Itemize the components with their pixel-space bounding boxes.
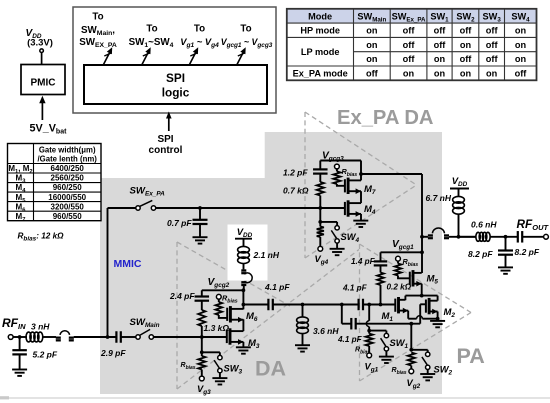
capacitor 8.2 pF series xyxy=(517,231,519,243)
block PMIC xyxy=(21,65,65,95)
svg-text:on: on xyxy=(515,54,527,64)
wire M3 source down xyxy=(242,342,244,347)
svg-text:To: To xyxy=(146,24,157,35)
svg-text:3 nH: 3 nH xyxy=(31,322,50,332)
svg-text:0.6 nH: 0.6 nH xyxy=(471,220,497,230)
terminal Vg4 xyxy=(318,246,323,251)
terminal Vg3 xyxy=(199,376,204,381)
svg-text:SPI: SPI xyxy=(166,71,185,85)
wire Vgcg2 rail xyxy=(202,289,244,291)
svg-text:0.2 kΩ: 0.2 kΩ xyxy=(387,283,412,292)
svg-text:on: on xyxy=(515,26,527,36)
wire lower cap to M2 gate xyxy=(356,323,421,325)
Ex_PA DA amplifier dashed triangle xyxy=(304,112,306,258)
node Vg2 bias junction xyxy=(409,348,413,352)
transistor M1 xyxy=(394,299,396,312)
capacitor 5.2 pF shunt xyxy=(19,337,21,350)
svg-text:off: off xyxy=(434,26,447,36)
node M2 source ground junction xyxy=(436,317,440,321)
resistor Rbias M6 gate xyxy=(216,294,221,299)
resistor Rbias Vg3 xyxy=(198,356,205,370)
node Vg1 bias junction xyxy=(367,329,371,333)
terminal RF_IN xyxy=(8,335,13,340)
svg-text:2560/250: 2560/250 xyxy=(51,174,85,183)
svg-text:logic: logic xyxy=(162,86,190,100)
svg-text:8.2 pF: 8.2 pF xyxy=(515,247,540,257)
wire M7 drain to output xyxy=(360,161,362,181)
wire upper cap to M1 gate xyxy=(363,304,395,306)
switch SW_Main xyxy=(136,335,140,339)
node choke junction xyxy=(457,235,461,239)
svg-text:off: off xyxy=(434,40,447,50)
inductor 6.7 nH choke xyxy=(453,196,465,203)
transistor M3 xyxy=(226,330,228,343)
svg-text:Mode: Mode xyxy=(308,11,332,21)
svg-text:on: on xyxy=(366,40,378,50)
wire M2 source down xyxy=(437,312,439,319)
svg-text:2.1 nH: 2.1 nH xyxy=(253,250,280,260)
capacitor 4.1 pF lower xyxy=(341,305,343,324)
node Vgcg1 rail junction xyxy=(420,250,424,254)
wire L3nH to bondpad xyxy=(42,336,56,338)
switch SW_Ex_PA xyxy=(136,206,140,210)
switch SW1 xyxy=(369,330,386,332)
capacitor 0.7 pF shunt xyxy=(199,208,201,220)
block SPI logic xyxy=(84,65,267,104)
svg-text:3200/550: 3200/550 xyxy=(51,202,85,211)
svg-text:To: To xyxy=(92,12,103,23)
switch SW4 xyxy=(320,221,337,223)
svg-text:on: on xyxy=(434,54,446,64)
svg-text:on: on xyxy=(434,68,446,78)
svg-text:SW1​~SW4​: SW1​~SW4​ xyxy=(129,37,174,49)
capacitor 4.1 pF DA output xyxy=(267,299,269,311)
wire M1 drain up xyxy=(404,296,406,301)
svg-text:8.2 pF: 8.2 pF xyxy=(468,249,493,259)
wire branch up to SW_Ex_PA row xyxy=(107,208,109,337)
white cutout box around 2.1 nH choke xyxy=(228,225,268,281)
node Vg4 bias junction xyxy=(318,220,322,224)
capacitor 4.1 pF upper xyxy=(358,299,360,311)
resistor Rbias M5 gate xyxy=(396,256,401,261)
wire M6 source to M3 drain xyxy=(242,319,244,331)
transistor M5 xyxy=(409,272,411,285)
svg-text:2.4 pF: 2.4 pF xyxy=(169,291,195,301)
ground SW1 xyxy=(379,356,394,358)
ground 8.2pF xyxy=(498,266,513,268)
wire Vgcg1 rail xyxy=(381,251,423,253)
svg-text:off: off xyxy=(403,40,416,50)
node Ex_PA feedback tap xyxy=(318,206,322,210)
svg-text:Ex_PA mode: Ex_PA mode xyxy=(293,68,348,78)
ground SW2 xyxy=(420,373,435,375)
wire Ex_PA output to bond xyxy=(361,173,422,175)
wire to RF_OUT xyxy=(522,236,543,238)
svg-text:1.2 pF: 1.2 pF xyxy=(283,168,308,178)
svg-text:off: off xyxy=(460,54,473,64)
svg-text:off: off xyxy=(486,54,499,64)
inductor 2.1 nH xyxy=(238,246,250,253)
terminal RF_OUT xyxy=(544,234,549,239)
svg-text:on: on xyxy=(366,26,378,36)
ground 5.2pF xyxy=(12,369,27,371)
wire Vg3 branch xyxy=(201,337,203,352)
wire M1 source to ground with hop xyxy=(407,311,409,319)
node input shunt junction xyxy=(18,335,22,339)
node 3.6nH tap xyxy=(301,303,305,307)
block SPI outer box xyxy=(73,7,276,113)
bondwire input xyxy=(56,337,61,342)
svg-text:To: To xyxy=(194,24,205,35)
svg-text:on: on xyxy=(366,54,378,64)
svg-text:off: off xyxy=(486,26,499,36)
node DA out tap xyxy=(242,303,246,307)
svg-text:1.4 pF: 1.4 pF xyxy=(351,257,376,266)
svg-text:5.2 pF: 5.2 pF xyxy=(33,350,58,360)
resistor Rbias Vg2 xyxy=(408,353,415,366)
node Ex_PA output xyxy=(359,172,363,176)
resistor 0.2 kOhm feedback xyxy=(380,265,382,272)
svg-text:on: on xyxy=(486,68,498,78)
wire M6 drain up xyxy=(242,290,244,309)
node interstage A xyxy=(340,303,344,307)
table switch mode settings xyxy=(287,9,537,23)
inductor 3.6 nH shunt xyxy=(302,305,304,318)
wire to shunt inductor xyxy=(273,304,342,306)
bondwire DA supply xyxy=(243,263,245,269)
node Ex_PA branch xyxy=(106,335,110,339)
node bias tap B xyxy=(367,303,371,307)
svg-text:0.7 kΩ: 0.7 kΩ xyxy=(283,186,309,196)
capacitor 2.9 pF xyxy=(115,331,117,343)
DA amplifier dashed triangle xyxy=(176,242,178,389)
node Vg3 bias junction xyxy=(200,350,204,354)
PA amplifier dashed triangle xyxy=(359,244,361,381)
capacitor 8.2 pF shunt xyxy=(505,237,507,251)
svg-text:6.7 nH: 6.7 nH xyxy=(426,193,452,203)
ground M3 source xyxy=(236,346,251,348)
ground 0.7pF xyxy=(193,236,208,238)
wire 5V_Vbat input arrow xyxy=(41,103,43,121)
terminal Vg2 xyxy=(409,369,414,374)
wire M2 gate feed xyxy=(420,303,426,305)
svg-text:DA: DA xyxy=(255,356,286,380)
ground SW3 xyxy=(212,377,227,379)
control arrow to Vg1-Vg4 xyxy=(190,51,197,65)
svg-text:960/550: 960/550 xyxy=(53,212,82,221)
MMIC chip grey region xyxy=(100,132,442,394)
svg-text:To: To xyxy=(240,24,251,35)
svg-text:2.9 pF: 2.9 pF xyxy=(100,348,126,358)
svg-text:SPI: SPI xyxy=(157,134,173,145)
ground M1 M2 source xyxy=(430,320,445,322)
transistor M4 xyxy=(344,202,346,215)
svg-text:LP mode: LP mode xyxy=(301,47,340,57)
wire B branch with hop xyxy=(368,305,370,321)
svg-text:16000/550: 16000/550 xyxy=(48,193,86,202)
svg-text:MMIC: MMIC xyxy=(114,258,142,270)
wire SW_Main to M3 gate xyxy=(154,336,227,338)
svg-text:/Gate lenth (nm): /Gate lenth (nm) xyxy=(38,155,98,164)
terminal VDD PMIC xyxy=(40,49,44,53)
node feedback join xyxy=(379,303,383,307)
svg-text:off: off xyxy=(403,26,416,36)
page artifact strip bottom xyxy=(0,397,550,399)
wire M2 drain up xyxy=(437,296,439,301)
wire Vg2 branch xyxy=(410,324,412,350)
svg-text:PA: PA xyxy=(457,344,485,368)
svg-text:control: control xyxy=(149,145,183,156)
svg-text:3.6 nH: 3.6 nH xyxy=(313,326,339,336)
wire M5 source down xyxy=(421,284,423,296)
wire SW_Ex_PA to M4 gate xyxy=(156,207,345,209)
node DA feedback tap xyxy=(200,335,204,339)
transistor M2 xyxy=(425,300,427,313)
node DA output bond junction xyxy=(242,288,246,292)
wire 0.6nH to caps xyxy=(490,236,518,238)
ground 3.6nH xyxy=(295,344,310,346)
switch SW3 xyxy=(202,351,220,353)
resistor Rbias Vg4 xyxy=(317,227,324,238)
svg-text:Ex_PA DA: Ex_PA DA xyxy=(337,107,434,129)
svg-text:(3.3V): (3.3V) xyxy=(27,37,53,48)
wire 2.9pF to SW_Main xyxy=(121,336,136,338)
svg-text:6400/250: 6400/250 xyxy=(51,164,85,173)
control arrow to Vgcg1-Vgcg3 xyxy=(237,51,244,65)
transistor M7 xyxy=(344,179,346,192)
capacitor 1.2 pF feedback xyxy=(319,161,321,170)
svg-text:Gate width(μm): Gate width(μm) xyxy=(39,146,96,155)
ground SW4 xyxy=(330,248,345,250)
resistor 0.7 kOhm feedback xyxy=(319,174,321,182)
control arrow to SW_Main/SW_EX_PA xyxy=(104,51,111,65)
ground M4 source xyxy=(353,220,368,222)
svg-text:off: off xyxy=(460,26,473,36)
wire VDD to PMIC xyxy=(41,53,43,65)
wire bond to 0.6nH xyxy=(459,236,477,238)
node 0.7pF tap xyxy=(198,206,202,210)
svg-text:off: off xyxy=(366,68,379,78)
svg-text:1.3 kΩ: 1.3 kΩ xyxy=(204,323,230,333)
wire RFin to L3nH xyxy=(13,336,27,338)
control arrow to SW1-SW4 xyxy=(142,51,149,65)
svg-text:on: on xyxy=(515,40,527,50)
capacitor 2.4 pF feedback xyxy=(201,290,203,296)
node Vg2 tap xyxy=(409,322,413,326)
table transistor gate dimensions xyxy=(8,144,102,221)
switch SW2 xyxy=(411,349,427,351)
node PA drain junction xyxy=(420,294,424,298)
resistor Rbias M7 gate xyxy=(335,164,340,169)
wire choke to output node xyxy=(458,214,460,237)
wire feedback to Vg4 node xyxy=(319,208,321,222)
node output shunt tap xyxy=(504,235,508,239)
wire bondpad to 2.9pF xyxy=(74,336,117,338)
svg-text:0.7 pF: 0.7 pF xyxy=(167,218,192,228)
svg-text:PMIC: PMIC xyxy=(31,78,56,89)
svg-text:4.1 pF: 4.1 pF xyxy=(337,335,363,344)
wire to SW_Ex_PA xyxy=(108,207,136,209)
SPI control input arrow xyxy=(168,115,170,131)
node output bond junction xyxy=(420,235,424,239)
inductor 0.6 nH series xyxy=(476,232,480,241)
svg-text:4.1 pF: 4.1 pF xyxy=(264,282,290,292)
svg-text:off: off xyxy=(403,54,416,64)
wire M1 M2 drain line xyxy=(405,295,437,297)
wire Vgcg3 rail xyxy=(320,160,361,162)
wire M4 source down xyxy=(360,214,362,220)
wire DA output line xyxy=(243,304,268,306)
capacitor 1.4 pF feedback xyxy=(380,252,382,261)
svg-text:on: on xyxy=(460,68,472,78)
transistor M6 xyxy=(226,308,228,321)
svg-text:960/250: 960/250 xyxy=(53,183,82,192)
svg-text:on: on xyxy=(460,40,472,50)
inductor 3 nH xyxy=(26,332,31,342)
svg-text:off: off xyxy=(515,68,528,78)
svg-text:HP mode: HP mode xyxy=(300,26,340,36)
svg-text:off: off xyxy=(486,40,499,50)
resistor 1.3 kOhm feedback xyxy=(201,301,203,310)
svg-text:on: on xyxy=(403,68,415,78)
resistor Rbias Vg1 xyxy=(366,334,373,346)
bondwire output xyxy=(422,236,428,238)
terminal Vg1 xyxy=(367,353,372,358)
svg-text:4.1 pF: 4.1 pF xyxy=(342,284,368,293)
wire M7 source to M4 drain xyxy=(360,191,362,203)
